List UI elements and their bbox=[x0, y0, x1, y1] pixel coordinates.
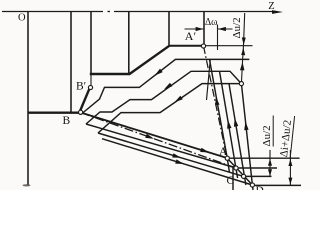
fraction bar bottom label bbox=[272, 116, 274, 147]
dim line / label bar x~244 leaning to pole bbox=[241, 13, 244, 84]
C box vertical bbox=[232, 166, 234, 190]
up arrow on flank 4 lower bbox=[244, 122, 248, 131]
dim arrows Delta-omega bbox=[185, 28, 233, 30]
svg-text:Δu/2: Δu/2 bbox=[261, 125, 273, 146]
svg-text:Δω: Δω bbox=[205, 17, 218, 28]
ink blob at bottom of x=28 line bbox=[23, 184, 31, 186]
node A circle bbox=[225, 156, 229, 160]
arrow on P2 diagonal bbox=[164, 83, 172, 90]
steep dash-dot A' to A bbox=[204, 46, 228, 158]
line y=168 from c2 bbox=[236, 167, 277, 169]
node c2 circle bbox=[234, 166, 238, 170]
thick chamfer bbox=[129, 46, 170, 75]
arrow on F4 bbox=[175, 159, 184, 164]
svg-text:C: C bbox=[227, 175, 235, 187]
line y=185.4 from D bbox=[252, 184, 301, 186]
line y=176.4 from c3 bbox=[244, 175, 272, 177]
addendum line y=158.2 bbox=[227, 157, 300, 159]
wire vertical x=128.8 bbox=[128, 12, 130, 74]
wire vertical x=204 dim extension bbox=[203, 12, 205, 44]
thick land y=74 bbox=[90, 73, 130, 75]
svg-text:A: A bbox=[219, 146, 228, 158]
flank line 3 bbox=[229, 84, 246, 185]
axis O-Z centerline bbox=[2, 11, 276, 13]
dim line x=270 bottom bbox=[269, 150, 271, 176]
node c3 circle bbox=[242, 174, 246, 178]
up arrow on flank 3 bbox=[234, 118, 238, 127]
up arrow on flank 2 bbox=[227, 120, 231, 129]
up arrow on dim column below P1 land bbox=[240, 62, 244, 71]
arrow on F3 bbox=[172, 153, 181, 158]
node A' circle bbox=[201, 44, 205, 48]
profile P2 stepped line bbox=[86, 71, 241, 124]
pole connector A to D bbox=[227, 158, 252, 185]
wire vertical x=91 bbox=[90, 12, 92, 75]
svg-text:B: B bbox=[63, 115, 71, 127]
up arrow on flank 1 bbox=[215, 97, 219, 106]
arrow on P3 diagonal bbox=[175, 96, 183, 103]
profile P3 stepped line bbox=[98, 84, 241, 133]
fraction bar of leaning label bbox=[290, 116, 294, 158]
flank line 4 lower bbox=[241, 84, 253, 190]
wire vertical x=71 bbox=[70, 12, 72, 113]
fan line F4 bbox=[102, 139, 252, 185]
node pole circle bbox=[239, 82, 243, 86]
axis arrowhead at Z bbox=[272, 10, 283, 14]
node B circle bbox=[79, 110, 83, 114]
fan line F3 bbox=[98, 133, 244, 176]
svg-text:O: O bbox=[18, 12, 26, 23]
svg-text:A′: A′ bbox=[185, 29, 197, 43]
fan line F1 B to A bbox=[81, 113, 227, 159]
flank line 1 bbox=[210, 59, 230, 172]
wire stub x=91 to B' bbox=[90, 74, 92, 85]
thick root line bbox=[28, 111, 79, 113]
thin A' line right bbox=[206, 45, 253, 47]
svg-text:Δu/2: Δu/2 bbox=[231, 17, 243, 38]
wire vertical x=169 bbox=[168, 12, 170, 46]
wire vertical x=217.5 dim extension bbox=[217, 25, 219, 51]
node D circle bbox=[250, 183, 254, 187]
fan line F2 bbox=[86, 124, 236, 168]
short flank segment from P1 land leaning left bbox=[207, 59, 211, 100]
thick top land to A' bbox=[169, 45, 202, 47]
flank line 2 bbox=[220, 71, 238, 178]
svg-text:D: D bbox=[256, 185, 264, 190]
fan dash-dot B to c2 bbox=[81, 113, 236, 169]
profile P1 stepped line bbox=[82, 59, 249, 113]
wire vertical x=28 bbox=[27, 12, 29, 186]
arrow on fan dash-dot bbox=[145, 134, 154, 139]
node B' circle bbox=[88, 85, 92, 89]
arrow on F1 bbox=[200, 148, 209, 153]
dim line x=290.4 bbox=[289, 150, 291, 185]
thick flank B to B' bbox=[80, 87, 90, 111]
svg-text:Z: Z bbox=[268, 1, 274, 12]
svg-text:B′: B′ bbox=[76, 81, 86, 93]
arrow on P1 diagonal bbox=[155, 69, 163, 76]
